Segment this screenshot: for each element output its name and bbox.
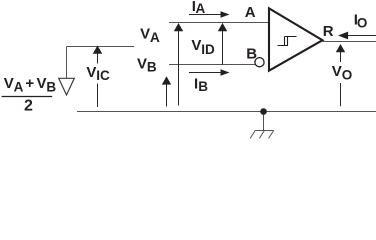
svg-text:V: V xyxy=(86,64,96,81)
svg-text:B: B xyxy=(198,79,208,94)
svg-text:O: O xyxy=(357,16,368,31)
svg-text:V: V xyxy=(137,56,147,73)
svg-text:O: O xyxy=(342,67,353,82)
svg-text:A: A xyxy=(150,30,160,45)
svg-text:V: V xyxy=(140,26,150,43)
svg-text:2: 2 xyxy=(24,98,33,115)
svg-text:V: V xyxy=(332,63,342,80)
svg-text:ID: ID xyxy=(201,42,215,57)
svg-text:V: V xyxy=(4,75,14,92)
svg-text:B: B xyxy=(46,79,56,94)
svg-text:A: A xyxy=(14,79,24,94)
svg-text:B: B xyxy=(147,60,157,75)
svg-text:A: A xyxy=(196,1,206,16)
svg-text:A: A xyxy=(245,4,256,21)
svg-text:IC: IC xyxy=(96,68,110,83)
svg-text:+: + xyxy=(25,75,34,92)
svg-text:V: V xyxy=(191,37,201,54)
svg-text:B: B xyxy=(246,46,257,63)
svg-text:R: R xyxy=(323,23,334,40)
svg-text:V: V xyxy=(37,75,47,92)
